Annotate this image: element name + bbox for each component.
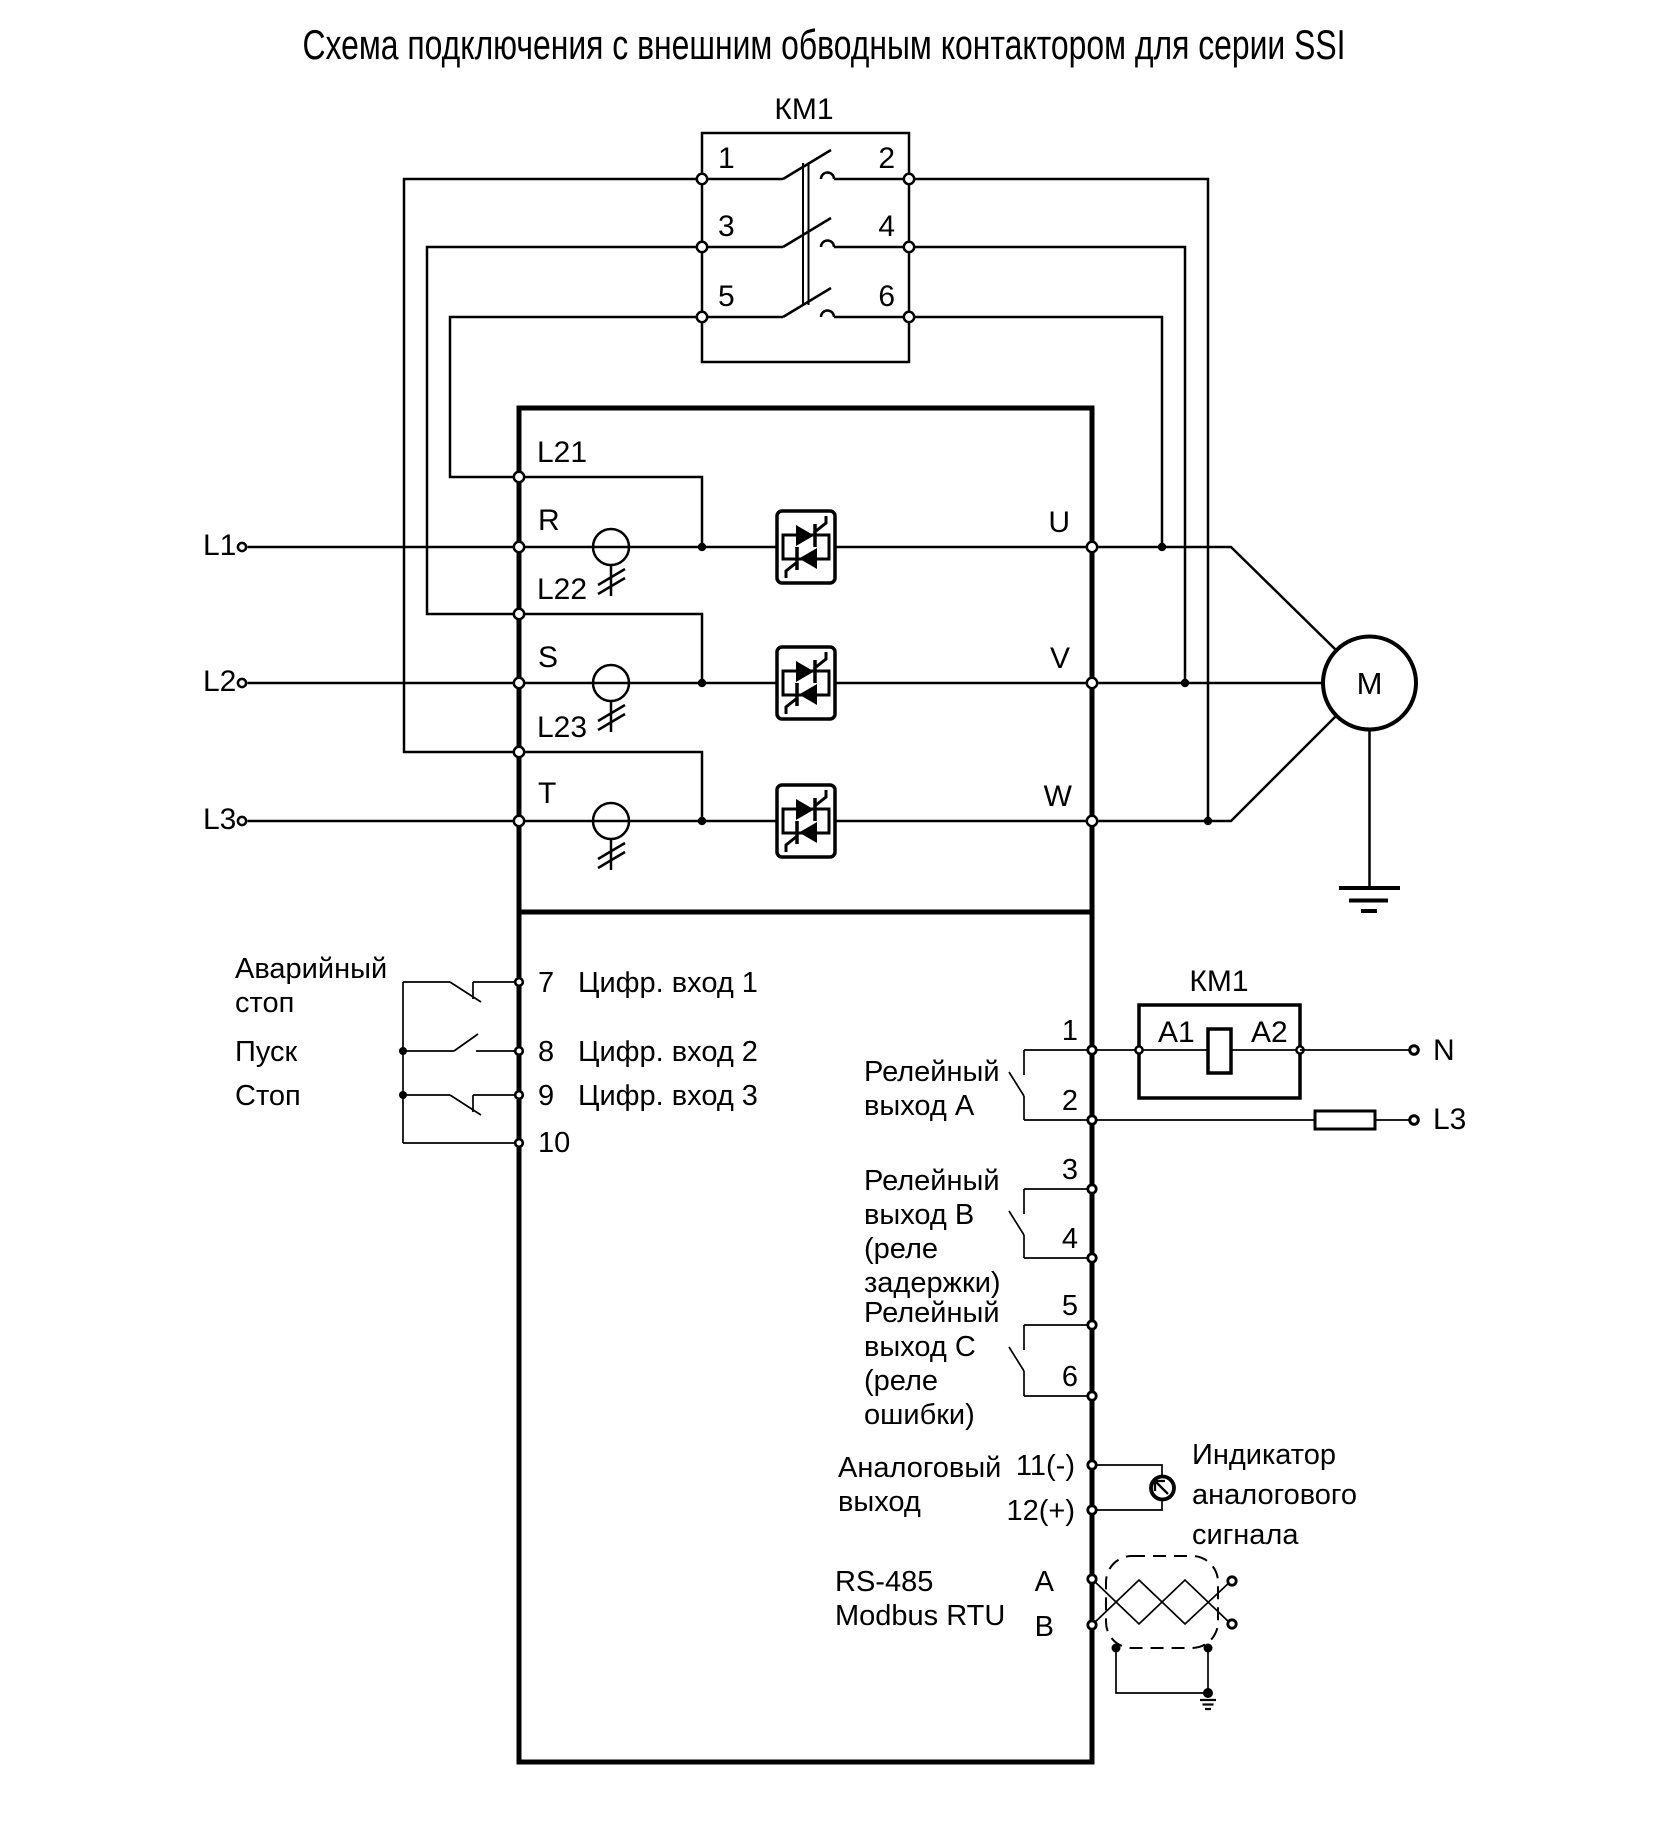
wire KM1 pin1 to L23 [404, 179, 702, 752]
shield tap dot left [1112, 1644, 1121, 1653]
wire analog output loop [1092, 1465, 1162, 1476]
relay contact A [1009, 1050, 1092, 1120]
wire T phase inside [519, 820, 1092, 823]
coil terminal A1 [1135, 1046, 1142, 1053]
svg-text:T: T [538, 777, 556, 810]
fuse FU [1315, 1111, 1375, 1129]
node L3 circle [238, 817, 246, 825]
svg-text:А2: А2 [1251, 1016, 1288, 1049]
terminal U [1087, 542, 1097, 552]
svg-text:задержки): задержки) [864, 1267, 1001, 1299]
digital input common wire [402, 982, 404, 1143]
terminal 3 [1088, 1185, 1096, 1193]
svg-text:Аналоговый: Аналоговый [838, 1452, 1001, 1484]
svg-text:L3: L3 [1433, 1103, 1466, 1136]
contactor KM1 box [702, 133, 909, 362]
svg-text:N: N [1433, 1034, 1455, 1067]
svg-text:выход А: выход А [864, 1090, 975, 1122]
coil terminal A2 [1296, 1046, 1303, 1053]
svg-text:аналогового: аналогового [1192, 1479, 1357, 1511]
wire L21 tap [519, 477, 702, 547]
svg-text:10: 10 [538, 1127, 570, 1159]
soft starter enclosure [519, 408, 1092, 1762]
analog indicator [1151, 1477, 1174, 1500]
twisted pair end circle bottom [1228, 1620, 1236, 1628]
svg-text:L23: L23 [537, 711, 587, 744]
svg-text:1: 1 [718, 142, 735, 175]
svg-text:L22: L22 [537, 573, 587, 606]
junction L22-S [698, 679, 706, 687]
svg-text:Цифр. вход 3: Цифр. вход 3 [578, 1080, 758, 1112]
enclosure divider [519, 910, 1092, 915]
svg-text:5: 5 [718, 280, 735, 313]
node N circle [1410, 1046, 1419, 1055]
thyristor module phase R [777, 511, 835, 583]
svg-text:А: А [1035, 1566, 1055, 1598]
coil wire A2 [1231, 1049, 1300, 1051]
junction start [399, 1047, 407, 1055]
KM1 terminal 3 [697, 242, 707, 252]
KM1 terminal 4 [904, 242, 914, 252]
svg-text:2: 2 [1062, 1085, 1078, 1117]
svg-text:5: 5 [1062, 1290, 1078, 1322]
svg-text:Стоп: Стоп [235, 1080, 301, 1112]
junction U-KM1 [1158, 543, 1166, 551]
shield drain wire [1116, 1648, 1208, 1693]
terminal 8 [515, 1047, 523, 1055]
svg-text:выход: выход [838, 1486, 921, 1518]
wire KM1 pin4 to V [909, 247, 1185, 683]
svg-text:S: S [538, 641, 558, 674]
twisted pair wire B [1092, 1580, 1231, 1625]
wire L1 to R [248, 546, 520, 549]
twisted pair wire A [1092, 1579, 1231, 1624]
wire L23 tap [519, 752, 702, 821]
switch stop (NC) [403, 1095, 519, 1115]
terminal 1 [1088, 1046, 1096, 1054]
coil element [1208, 1029, 1231, 1073]
svg-text:4: 4 [1062, 1223, 1078, 1255]
terminal S [514, 678, 524, 688]
motor ground [1339, 888, 1400, 911]
svg-text:Релейный: Релейный [864, 1056, 1000, 1088]
junction L23-T [698, 817, 706, 825]
svg-text:Цифр. вход 1: Цифр. вход 1 [578, 967, 758, 999]
wire coil to N [1300, 1049, 1409, 1051]
terminal A [1088, 1575, 1096, 1583]
svg-text:V: V [1050, 642, 1070, 675]
KM1 contact pole 5-6 [702, 288, 909, 317]
svg-text:(реле: (реле [864, 1233, 938, 1265]
terminal V [1087, 678, 1097, 688]
terminal 6 [1088, 1392, 1096, 1400]
wire R phase inside [519, 546, 1092, 549]
svg-text:В: В [1035, 1611, 1054, 1643]
svg-text:ошибки): ошибки) [864, 1399, 975, 1431]
svg-text:9: 9 [538, 1080, 554, 1112]
terminal 12 [1088, 1506, 1096, 1514]
svg-text:W: W [1044, 780, 1073, 813]
svg-text:выход В: выход В [864, 1199, 974, 1231]
shield ground [1200, 1700, 1216, 1709]
svg-text:Цифр. вход 2: Цифр. вход 2 [578, 1036, 758, 1068]
wire fuse to L3 [1375, 1119, 1409, 1121]
terminal 11 [1088, 1461, 1096, 1469]
KM1 contact pole 1-2 [702, 150, 909, 179]
KM1 terminal 6 [904, 312, 914, 322]
terminal 2 [1088, 1116, 1096, 1124]
wire L3 to T [248, 820, 520, 823]
terminal 4 [1088, 1254, 1096, 1262]
node L1 circle [238, 543, 246, 551]
svg-text:6: 6 [878, 280, 895, 313]
junction V-KM1 [1181, 679, 1189, 687]
svg-text:Релейный: Релейный [864, 1165, 1000, 1197]
svg-text:1: 1 [1062, 1015, 1078, 1047]
wire KM1 pin6 to U [909, 317, 1162, 547]
wire L22 tap [519, 614, 702, 683]
wire W to motor [1099, 716, 1337, 821]
thyristor module phase T [777, 785, 835, 857]
terminal L21 [514, 472, 524, 482]
twisted pair end circle top [1228, 1577, 1236, 1585]
terminal 5 [1088, 1321, 1096, 1329]
svg-text:Релейный: Релейный [864, 1297, 1000, 1329]
KM1 contact pole 3-4 [702, 218, 909, 247]
wire KM1 pin5 to L21 [450, 317, 702, 477]
svg-text:2: 2 [878, 142, 895, 175]
svg-text:(реле: (реле [864, 1365, 938, 1397]
svg-text:4: 4 [878, 210, 895, 243]
svg-text:КМ1: КМ1 [774, 93, 833, 126]
svg-text:3: 3 [718, 210, 735, 243]
KM1 mechanical linkage [803, 163, 809, 305]
svg-text:Аварийный: Аварийный [235, 953, 387, 985]
wire terminal1 to coil [1092, 1049, 1139, 1051]
svg-text:Схема подключения с внешним об: Схема подключения с внешним обводным кон… [303, 21, 1346, 68]
shield tap dot right [1204, 1644, 1213, 1653]
svg-text:8: 8 [538, 1036, 554, 1068]
terminal 7 [515, 978, 523, 986]
switch start (NO) [403, 1034, 519, 1051]
terminal 9 [515, 1091, 523, 1099]
svg-text:L3: L3 [203, 803, 236, 836]
svg-text:11(-): 11(-) [1016, 1450, 1075, 1482]
svg-text:М: М [1357, 666, 1383, 701]
svg-text:3: 3 [1062, 1154, 1078, 1186]
svg-text:Индикатор: Индикатор [1192, 1439, 1336, 1471]
coil wire A1 [1139, 1049, 1208, 1051]
terminal B [1088, 1621, 1096, 1629]
node L3 circle [1410, 1116, 1419, 1125]
svg-text:КМ1: КМ1 [1189, 965, 1248, 998]
svg-text:сигнала: сигнала [1192, 1519, 1299, 1551]
svg-text:7: 7 [538, 967, 554, 999]
CT on phase T [593, 803, 629, 870]
svg-text:U: U [1048, 506, 1070, 539]
svg-text:RS-485: RS-485 [835, 1566, 933, 1598]
motor M [1323, 637, 1416, 730]
junction L21-R [698, 543, 706, 551]
svg-text:6: 6 [1062, 1361, 1078, 1393]
switch emergency stop (NC) [403, 982, 519, 1002]
svg-text:L2: L2 [203, 665, 236, 698]
terminal L23 [514, 747, 524, 757]
shield ground junction [1203, 1688, 1213, 1698]
svg-text:выход С: выход С [864, 1331, 976, 1363]
thyristor module phase S [777, 647, 835, 719]
motor ground wire [1368, 730, 1371, 889]
CT on phase R [593, 529, 629, 596]
terminal 10 [515, 1139, 523, 1147]
svg-text:Modbus RTU: Modbus RTU [835, 1600, 1005, 1632]
cable shield dashed outline [1106, 1556, 1218, 1648]
KM1 terminal 1 [697, 174, 707, 184]
CT on phase S [593, 665, 629, 732]
relay contact B [1009, 1189, 1092, 1258]
KM1 terminal 2 [904, 174, 914, 184]
terminal W [1087, 816, 1097, 826]
svg-text:А1: А1 [1158, 1016, 1195, 1049]
svg-text:Пуск: Пуск [235, 1036, 298, 1068]
relay contact C [1009, 1325, 1092, 1396]
terminal R [514, 542, 524, 552]
wire KM1 pin3 to L22 [427, 247, 702, 614]
junction stop [399, 1091, 407, 1099]
wire L2 to S [248, 682, 520, 685]
wire KM1 pin2 to W [909, 179, 1208, 821]
wire U to motor [1099, 547, 1337, 650]
svg-text:R: R [538, 504, 560, 537]
wire terminal 10 [403, 1142, 519, 1144]
svg-text:12(+): 12(+) [1006, 1495, 1075, 1527]
terminal T [514, 816, 524, 826]
svg-text:L21: L21 [537, 436, 587, 469]
junction W-KM1 [1204, 817, 1212, 825]
svg-text:стоп: стоп [235, 987, 294, 1019]
KM1 terminal 5 [697, 312, 707, 322]
terminal L22 [514, 609, 524, 619]
wire S phase inside [519, 682, 1092, 685]
wire V to motor [1099, 682, 1324, 685]
KM1 coil box [1139, 1005, 1300, 1098]
svg-text:L1: L1 [203, 529, 236, 562]
node L2 circle [238, 679, 246, 687]
wire terminal2 to fuse [1092, 1119, 1315, 1121]
